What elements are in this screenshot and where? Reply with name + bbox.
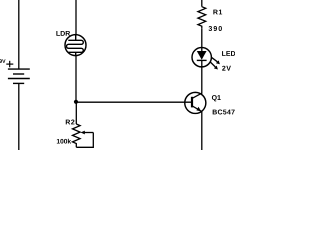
label LDR — [56, 31, 70, 36]
wire: middle branch top — [75, 0, 77, 35]
label 2V — [222, 66, 231, 71]
wire: base wire to Q1 — [76, 101, 192, 103]
node: junction dot — [74, 100, 78, 104]
wire: left branch top (battery +) — [18, 0, 20, 69]
label 9V — [0, 59, 6, 63]
LDR photoresistor — [65, 35, 86, 56]
label 390 — [209, 26, 222, 31]
wire: right branch top stub — [201, 0, 203, 7]
battery BT1 9V — [8, 69, 30, 83]
label LED — [222, 51, 235, 56]
LED light arrow 1 — [211, 57, 220, 64]
transistor Q1 BC547 — [185, 92, 206, 113]
battery plus sign — [6, 61, 13, 68]
resistor R1 — [198, 7, 206, 29]
potentiometer R2 — [73, 124, 81, 147]
label 100k — [57, 139, 71, 144]
LED D1 — [192, 48, 211, 67]
label R2 — [66, 120, 75, 125]
wire: R2 wiper loop — [76, 133, 93, 148]
wire: R1 to LED — [201, 28, 203, 47]
wire: middle branch LDR to junction — [75, 56, 77, 103]
label Q1 — [212, 95, 221, 101]
wire: Q1 emitter to bottom — [201, 112, 203, 151]
wiper arrow of R2 — [81, 131, 94, 135]
wire: LED to Q1 collector — [201, 67, 203, 94]
label R1 — [213, 10, 222, 15]
LED light arrow 2 — [210, 62, 218, 70]
wire: left branch bottom (battery -) — [18, 83, 20, 150]
label BC547 — [213, 110, 235, 115]
wire: junction to R2 — [75, 102, 77, 124]
